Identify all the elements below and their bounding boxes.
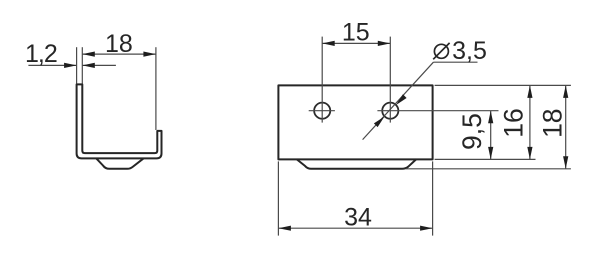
arrow bottom of 9,5 dim [488,147,493,160]
svg-text:3,5: 3,5 [452,37,487,65]
leader line for hole diameter [363,62,434,139]
arrow right of 34 dim [420,226,433,231]
arrow left of 18 dim [82,52,95,57]
arrow right of 15 dim [378,41,391,46]
dimension line 18 (right view) [565,85,567,168]
svg-text:34: 34 [344,204,372,232]
svg-text:16: 16 [499,108,529,137]
centerline vertical left hole / ext for 15 [321,37,323,123]
centerline horizontal right hole / ext for 9,5 [377,110,498,112]
dimension line 1,2 left tail [28,64,76,66]
plate rectangle [278,85,432,159]
arrow top of 9,5 dim [488,111,493,124]
dimension line 1,2 right tail [82,64,116,66]
centerline horizontal left hole [309,110,335,112]
svg-text:15: 15 [342,18,370,46]
arrow top of 18 dim [563,85,568,98]
arrow left of 15 dim [322,41,335,46]
extension line bump bottom right [406,168,571,170]
diameter symbol [434,44,448,58]
svg-text:9,5: 9,5 [457,113,487,150]
arrow top of 16 dim [527,85,532,98]
extension line top edge right [435,84,571,86]
arrow pointing right at outer face [64,63,77,68]
extension line at inner face x=82.3 [81,47,83,83]
arrow bottom of 16 dim [527,147,532,160]
bump (formed dimple) left view [96,158,143,168]
leader arrow lower (points to hole edge) [374,116,385,127]
dimension line 34 [278,227,432,229]
arrow right of 18 dim [143,52,156,57]
arrow pointing left at inner face [82,63,95,68]
centerline vertical right hole / ext for 15 [389,37,391,123]
dimension line 16 [529,85,531,159]
extension line plate bottom right [435,158,536,160]
extension line right x=155.9 [155,47,157,130]
extension line at outer face x=76.6 [76,47,78,83]
hole left [314,103,330,119]
channel outline left view [77,84,162,158]
extension line left for 34 [277,161,279,235]
svg-text:18: 18 [538,108,568,137]
arrow bottom of 18 dim [563,156,568,169]
extension line right for 34 [432,161,434,235]
svg-text:18: 18 [105,30,133,58]
dimension line 18 (left view) [82,53,156,55]
bump (formed dimple) front view [297,159,416,168]
svg-text:1,2: 1,2 [25,40,57,68]
dimension line 15 [322,42,390,44]
leader shoulder under label [433,61,477,63]
leader arrow upper (points to hole edge) [396,94,407,105]
arrow left of 34 dim [278,226,291,231]
dimension line 9,5 [490,111,492,160]
hole right [382,103,398,119]
